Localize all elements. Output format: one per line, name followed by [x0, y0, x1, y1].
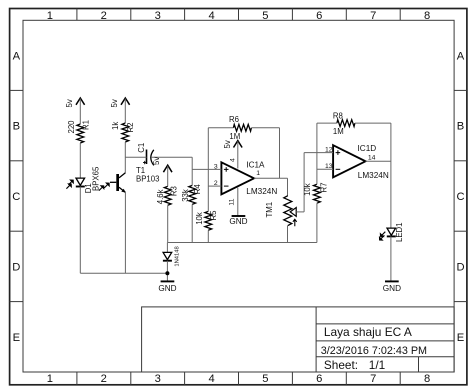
wire R1 top: [79, 99, 81, 124]
wire R8 left: [317, 122, 337, 124]
svg-text:5v: 5v: [223, 140, 232, 148]
svg-text:10k: 10k: [195, 212, 204, 225]
wire D1 to ground rail: [79, 187, 81, 274]
svg-text:TM1: TM1: [265, 202, 274, 218]
junction node dot: [165, 271, 169, 275]
supply +5V arrow for IC1A pin4: [223, 140, 242, 148]
svg-text:B: B: [457, 121, 464, 133]
svg-text:C1: C1: [137, 143, 146, 153]
svg-text:A: A: [457, 50, 465, 62]
frame column labels bottom: [47, 373, 430, 385]
wire R2 to T1 collector: [124, 142, 126, 173]
supply +5V arrow for R2: [110, 98, 130, 108]
svg-text:R8: R8: [333, 112, 343, 121]
svg-text:R1: R1: [81, 120, 90, 130]
svg-text:12: 12: [325, 147, 333, 154]
wire R7 to bottom rail: [316, 203, 318, 242]
wire R8 right: [355, 122, 391, 124]
frame row labels right: [456, 50, 464, 344]
svg-text:8: 8: [424, 373, 430, 385]
resistor R5: [195, 210, 218, 230]
wire R1 to D1: [79, 143, 81, 178]
wire R2 top: [124, 99, 126, 123]
pin 12 wire: [304, 152, 333, 154]
supply +5V arrow for R1: [65, 98, 85, 108]
wire R4 top: [191, 169, 193, 185]
svg-text:5: 5: [262, 373, 268, 385]
photodiode D1: [66, 166, 100, 193]
resistor R1: [67, 120, 90, 143]
svg-text:7: 7: [370, 373, 376, 385]
pin 1 output wire: [254, 177, 288, 179]
wire R6 right vertical to output: [279, 128, 281, 178]
wire C1 to node: [152, 156, 192, 158]
svg-text:IC1A: IC1A: [246, 161, 265, 170]
bottom rail wire: [168, 242, 317, 244]
svg-text:2: 2: [101, 10, 107, 22]
wire R5 to bottom rail: [207, 230, 209, 242]
svg-text:B: B: [13, 121, 20, 133]
supply +5V arrow for R3: [152, 157, 172, 173]
svg-text:R4: R4: [193, 184, 202, 195]
frame row ticks left: [10, 90, 23, 301]
svg-text:1/1: 1/1: [369, 358, 385, 372]
resistor R4: [181, 184, 202, 205]
wire R8 right vertical down to LED: [390, 123, 392, 228]
op-amp IC1A: [221, 161, 277, 197]
svg-text:11: 11: [228, 198, 235, 205]
svg-text:R2: R2: [126, 123, 135, 133]
svg-text:7: 7: [370, 10, 376, 22]
svg-text:6: 6: [316, 373, 322, 385]
ground symbol left: [158, 281, 176, 293]
svg-text:D: D: [12, 262, 20, 274]
svg-text:R6: R6: [229, 115, 239, 124]
svg-text:4.6k: 4.6k: [156, 189, 165, 204]
frame row ticks right: [454, 90, 467, 301]
svg-text:GND: GND: [158, 284, 176, 293]
svg-text:5: 5: [262, 10, 268, 22]
svg-text:A: A: [13, 50, 21, 62]
ground under IC1A: [229, 216, 247, 226]
svg-text:LED1: LED1: [395, 222, 404, 242]
svg-text:BPX65: BPX65: [91, 166, 100, 191]
wire R3 to bottom rail: [167, 205, 169, 242]
svg-text:1k: 1k: [111, 122, 120, 130]
diode 1N4148: [163, 246, 181, 266]
trimmer TM1: [265, 196, 297, 227]
frame row labels left: [12, 50, 20, 344]
svg-text:5v: 5v: [152, 157, 161, 165]
svg-text:Laya shaju EC A: Laya shaju EC A: [324, 325, 412, 339]
svg-text:GND: GND: [383, 284, 401, 293]
svg-text:R7: R7: [319, 183, 328, 193]
svg-text:220: 220: [67, 120, 76, 134]
wire diode to ground node: [166, 261, 168, 281]
svg-text:E: E: [457, 332, 464, 344]
resistor R3: [156, 186, 178, 205]
svg-text:6: 6: [316, 10, 322, 22]
svg-text:13: 13: [325, 163, 333, 170]
svg-text:3: 3: [155, 373, 161, 385]
resistor R8: [333, 112, 355, 137]
wire output down to TM1: [287, 178, 289, 196]
pin 13 wire: [317, 168, 333, 170]
svg-text:2: 2: [214, 180, 218, 187]
svg-text:C: C: [456, 191, 464, 203]
svg-text:4: 4: [208, 10, 214, 22]
wiper wire: [296, 211, 304, 213]
svg-text:3: 3: [155, 10, 161, 22]
wire R4 to bottom rail: [191, 204, 193, 242]
wire LED1 to ground: [390, 236, 392, 281]
pin 2 wire: [208, 185, 221, 187]
svg-text:10k: 10k: [303, 183, 312, 196]
svg-text:33k: 33k: [181, 189, 190, 202]
svg-text:1M: 1M: [229, 132, 240, 141]
svg-text:Sheet:: Sheet:: [324, 358, 358, 372]
frame column ticks bottom: [77, 372, 400, 385]
svg-text:LM324N: LM324N: [246, 187, 277, 196]
wire node down to pin3 level: [191, 157, 193, 169]
svg-text:1M: 1M: [333, 127, 344, 136]
title block: [142, 307, 455, 372]
svg-text:C: C: [12, 191, 20, 203]
pin 14 output wire: [366, 160, 391, 162]
svg-text:1: 1: [47, 373, 53, 385]
svg-text:IC1D: IC1D: [358, 144, 377, 153]
svg-text:14: 14: [368, 155, 376, 162]
LED1: [379, 222, 404, 242]
svg-text:3/23/2016 7:02:43 PM: 3/23/2016 7:02:43 PM: [321, 345, 427, 357]
wire R6 left: [208, 127, 233, 129]
svg-text:R3: R3: [170, 186, 179, 196]
wire pin4: [237, 141, 239, 168]
svg-text:5v: 5v: [110, 99, 119, 107]
wire rail to diode 1N4148: [166, 243, 168, 253]
wire T1 emitter to ground rail: [124, 192, 126, 273]
svg-text:BP103: BP103: [136, 175, 159, 184]
wire 5v to R3: [167, 166, 169, 187]
frame column ticks top: [77, 9, 400, 21]
transistor T1: [99, 166, 160, 193]
svg-text:LM324N: LM324N: [358, 171, 389, 180]
svg-text:4: 4: [230, 158, 237, 162]
frame column labels top: [47, 10, 430, 22]
svg-text:8: 8: [424, 10, 430, 22]
svg-text:1: 1: [47, 10, 53, 22]
resistor R6: [229, 115, 251, 141]
op-amp IC1D: [333, 144, 389, 180]
svg-text:5v: 5v: [65, 99, 74, 107]
svg-text:E: E: [13, 332, 20, 344]
svg-text:4: 4: [208, 373, 214, 385]
svg-text:GND: GND: [229, 217, 247, 226]
ground under LED1: [383, 281, 401, 293]
svg-text:2: 2: [101, 373, 107, 385]
left ground rail wire: [80, 272, 167, 274]
svg-text:1: 1: [256, 170, 260, 177]
wire R6 right: [251, 127, 279, 129]
wire R8 left vertical down through pin13 to R7: [316, 123, 318, 184]
svg-text:3: 3: [214, 163, 218, 170]
pin 3 wire: [192, 168, 221, 170]
wire wiper up to pin12: [303, 153, 305, 212]
svg-text:R5: R5: [209, 210, 218, 221]
wire feedback left vertical R6 to R5: [207, 128, 209, 212]
resistor R7: [303, 183, 328, 204]
resistor R2: [111, 122, 135, 142]
wire TM1 bottom to rail: [287, 226, 289, 243]
capacitor C1: [137, 143, 154, 166]
wire T1 collector to C1: [125, 156, 146, 158]
pin 11 wire: [237, 188, 239, 216]
svg-text:1N4148: 1N4148: [175, 246, 181, 266]
svg-text:D: D: [456, 262, 464, 274]
